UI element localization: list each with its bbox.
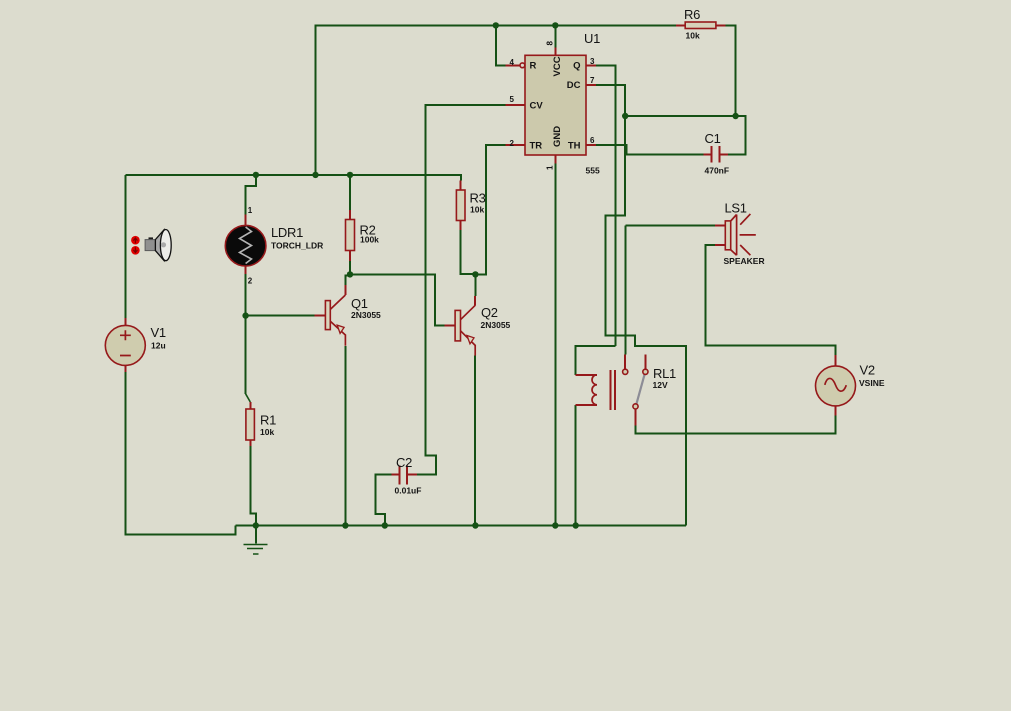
svg-text:VCC: VCC (552, 56, 563, 76)
svg-text:VSINE: VSINE (859, 378, 885, 388)
svg-text:R1: R1 (260, 413, 276, 428)
svg-text:R3: R3 (470, 191, 486, 206)
svg-text:DC: DC (567, 80, 581, 91)
svg-text:100k: 100k (360, 235, 379, 245)
svg-text:CV: CV (530, 101, 544, 112)
svg-text:12V: 12V (653, 380, 668, 390)
svg-text:2: 2 (248, 277, 253, 286)
svg-text:5: 5 (510, 95, 515, 104)
svg-text:GND: GND (552, 126, 563, 147)
svg-text:10k: 10k (686, 31, 700, 41)
svg-text:2N3055: 2N3055 (351, 310, 381, 320)
svg-text:1: 1 (546, 165, 555, 170)
svg-text:Q1: Q1 (351, 296, 368, 311)
svg-text:C2: C2 (396, 455, 412, 470)
svg-text:TORCH_LDR: TORCH_LDR (271, 241, 323, 251)
svg-text:10k: 10k (260, 427, 274, 437)
svg-text:LDR1: LDR1 (271, 225, 303, 240)
svg-text:12u: 12u (151, 341, 166, 351)
svg-text:U1: U1 (584, 31, 600, 46)
svg-text:3: 3 (590, 57, 595, 66)
svg-text:RL1: RL1 (653, 366, 676, 381)
svg-text:R: R (530, 61, 537, 72)
svg-text:4: 4 (510, 58, 515, 67)
svg-text:8: 8 (546, 41, 555, 46)
svg-text:2N3055: 2N3055 (481, 320, 511, 330)
svg-text:10k: 10k (470, 205, 484, 215)
svg-text:470nF: 470nF (705, 166, 730, 176)
svg-text:555: 555 (586, 166, 600, 176)
svg-text:1: 1 (248, 206, 253, 215)
svg-text:R6: R6 (684, 7, 700, 22)
svg-text:TR: TR (530, 141, 543, 152)
svg-text:6: 6 (590, 136, 595, 145)
svg-text:SPEAKER: SPEAKER (724, 256, 765, 266)
svg-text:0.01uF: 0.01uF (395, 486, 422, 496)
svg-text:7: 7 (590, 76, 595, 85)
svg-text:LS1: LS1 (725, 201, 747, 216)
svg-text:2: 2 (510, 139, 515, 148)
svg-text:Q2: Q2 (481, 305, 498, 320)
svg-text:Q: Q (573, 61, 580, 72)
svg-text:V2: V2 (860, 363, 875, 378)
svg-text:V1: V1 (151, 325, 166, 340)
svg-text:C1: C1 (705, 131, 721, 146)
svg-text:TH: TH (568, 141, 581, 152)
